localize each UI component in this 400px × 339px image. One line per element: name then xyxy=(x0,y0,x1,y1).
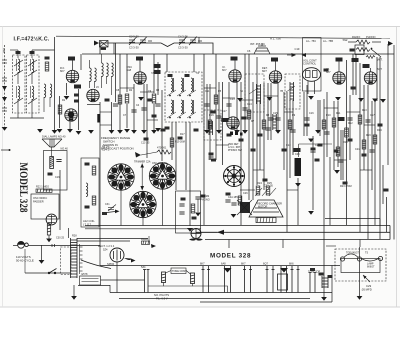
right bus verticals xyxy=(389,226,391,240)
IF transformer T1 dashed can xyxy=(13,55,26,113)
coil L4 xyxy=(32,86,34,100)
capacitor C3 xyxy=(113,104,118,106)
cluster caps near box xyxy=(195,197,200,199)
wire verticals xyxy=(54,37,56,130)
socket pair 1 xyxy=(202,266,211,293)
grounds below xyxy=(321,297,327,301)
wire chassis top xyxy=(100,265,340,267)
ballast box xyxy=(80,276,101,285)
svg-text:R19: R19 xyxy=(366,134,371,137)
wave trap cluster xyxy=(254,43,270,54)
coil L14 xyxy=(290,82,294,101)
IF can dashed C (mid) xyxy=(245,74,264,112)
tone bottom wires xyxy=(148,283,164,287)
socket pair 4 xyxy=(266,266,275,293)
gang capacitor section C xyxy=(130,191,156,217)
resistor R15 xyxy=(288,120,292,129)
capacitor C21 xyxy=(347,118,352,120)
resistor R17 xyxy=(170,138,174,147)
page scan edges xyxy=(0,26,400,28)
svg-text:C30 25: C30 25 xyxy=(56,237,65,240)
coil L4a xyxy=(44,84,46,98)
coil L5d xyxy=(107,63,109,77)
wires from gang sections to bus xyxy=(120,191,122,226)
resistor R13 xyxy=(191,204,195,213)
coil L15 with core xyxy=(209,121,213,135)
pins under tube V10 xyxy=(230,132,233,136)
resistor horizontal above box xyxy=(36,189,52,192)
svg-text:PHONO SW: PHONO SW xyxy=(228,149,243,152)
svg-text:C3 3-30: C3 3-30 xyxy=(129,46,139,50)
svg-text:R11: R11 xyxy=(336,112,341,115)
trimmer capacitor cluster A xyxy=(129,37,152,46)
svg-text:C4A 185: C4A 185 xyxy=(228,196,238,199)
svg-text:SW.: SW. xyxy=(343,38,349,42)
svg-text:C12: C12 xyxy=(286,144,291,147)
svg-text:C14: C14 xyxy=(247,103,252,106)
ground symbols row xyxy=(37,129,43,133)
resistor cluster above trapezoid xyxy=(256,186,260,195)
svg-text:6Q7: 6Q7 xyxy=(263,262,268,266)
trimmer capacitor cluster B xyxy=(179,37,202,46)
resistor R1 xyxy=(118,95,122,104)
svg-text:R13: R13 xyxy=(362,109,367,112)
svg-text:C17: C17 xyxy=(222,110,227,113)
svg-text:C16: C16 xyxy=(55,176,60,179)
svg-text:R15: R15 xyxy=(343,141,348,144)
resistor R19 xyxy=(362,140,366,149)
svg-text:6R7: 6R7 xyxy=(262,69,267,73)
resistor R30 left of bus xyxy=(47,224,50,235)
ground G xyxy=(41,245,43,260)
tiny labels above sockets xyxy=(141,262,294,270)
resistor R12 xyxy=(92,166,96,175)
svg-text:6K7: 6K7 xyxy=(200,262,205,266)
power switch xyxy=(48,272,50,274)
svg-text:7A: 7A xyxy=(196,72,199,75)
transformer B+ wires xyxy=(77,238,148,240)
tone control posts xyxy=(162,272,195,284)
svg-text:OSC 600KC: OSC 600KC xyxy=(33,196,47,200)
resistor R9 xyxy=(358,115,362,124)
tube V2 xyxy=(87,89,99,101)
svg-text:NO.40: NO.40 xyxy=(61,148,69,151)
wire filament 2 xyxy=(119,298,310,300)
capacitor C16 xyxy=(141,108,146,110)
coil L5c xyxy=(102,63,104,77)
coil L10 xyxy=(181,100,183,114)
svg-text:C4 3-30: C4 3-30 xyxy=(178,35,188,39)
svg-text:I.F.=472½K.C.: I.F.=472½K.C. xyxy=(14,36,50,43)
svg-text:R28: R28 xyxy=(72,235,77,238)
IF can dashed D (mid) xyxy=(285,74,300,109)
svg-text:R22 1 MEG: R22 1 MEG xyxy=(36,186,49,189)
svg-text:E578: E578 xyxy=(82,273,88,276)
resistor R4 xyxy=(214,95,218,104)
resistor ladder below V5 xyxy=(273,114,277,130)
svg-text:MODEL 328: MODEL 328 xyxy=(210,253,251,260)
resistor R14 xyxy=(238,196,242,205)
svg-text:C2 3-30: C2 3-30 xyxy=(129,35,139,39)
bus B+ xyxy=(85,225,390,227)
svg-text:R24: R24 xyxy=(257,181,262,185)
plug pin circles on inner box xyxy=(340,257,344,261)
svg-text:470 561: 470 561 xyxy=(157,146,167,150)
capacitor C4 xyxy=(131,110,136,112)
svg-text:PHONO: PHONO xyxy=(366,35,376,39)
resistor R21 dark xyxy=(50,157,54,169)
socket pair 6 xyxy=(291,266,300,293)
svg-text:C16: C16 xyxy=(309,112,314,115)
svg-text:PHONO: PHONO xyxy=(201,199,210,202)
coil L2 xyxy=(32,59,34,73)
capacitor C20 xyxy=(265,128,270,130)
transformer shield dashed xyxy=(61,247,72,275)
resistor R5 xyxy=(247,110,251,119)
socket pair 2 xyxy=(225,266,231,293)
svg-text:6K6GT: 6K6GT xyxy=(367,266,375,269)
svg-text:C21: C21 xyxy=(355,148,360,151)
zigzag resistor horizontal xyxy=(157,150,171,154)
ground under transformer xyxy=(73,285,75,296)
svg-text:TOP 6K6GT: TOP 6K6GT xyxy=(346,252,360,255)
svg-text:7A: 7A xyxy=(240,90,243,93)
svg-text:R23 470M: R23 470M xyxy=(340,185,352,188)
svg-text:TONE TOP: TONE TOP xyxy=(308,271,320,274)
power transformer xyxy=(71,238,78,278)
resistor R10 xyxy=(373,135,377,144)
frequency range note xyxy=(101,136,134,151)
arc wires between pins xyxy=(344,254,358,257)
svg-text:6A8: 6A8 xyxy=(221,262,226,266)
inner box xyxy=(341,259,380,273)
resistor R6 xyxy=(262,120,266,129)
C19 opposing arrows xyxy=(292,53,297,57)
mains voltage note xyxy=(16,255,34,263)
trimmer cluster near pointer xyxy=(108,205,116,212)
coil L13 xyxy=(257,84,261,104)
tube V1 6K7 xyxy=(66,70,78,82)
svg-text:ANT: ANT xyxy=(2,48,6,54)
svg-text:A.L.756: A.L.756 xyxy=(270,37,281,41)
output transformer trapezoid xyxy=(249,200,283,217)
resistor R7 xyxy=(322,120,326,129)
socket pair 3 xyxy=(243,266,252,293)
svg-text:7A: 7A xyxy=(151,72,154,75)
small labels scattered xyxy=(154,64,161,68)
tuning eye shield box xyxy=(44,151,68,191)
resistor R8 xyxy=(345,128,349,137)
capacitor C9 xyxy=(304,118,309,120)
svg-text:C5 3-30: C5 3-30 xyxy=(178,46,188,50)
svg-text:6K7: 6K7 xyxy=(60,69,65,73)
tall shield box xyxy=(81,158,99,227)
svg-text:R16: R16 xyxy=(209,114,214,117)
tube V3 6A8 xyxy=(134,72,146,84)
bus heater xyxy=(205,239,390,241)
svg-text:6K7: 6K7 xyxy=(222,68,227,72)
svg-text:C11: C11 xyxy=(205,90,210,93)
gang capacitor section B xyxy=(149,163,175,189)
svg-text:R14: R14 xyxy=(377,129,382,132)
horn symbol xyxy=(124,258,136,263)
svg-text:5Z4: 5Z4 xyxy=(103,248,108,252)
svg-text:5Z4: 5Z4 xyxy=(141,265,146,269)
svg-text:C25: C25 xyxy=(295,153,300,156)
capacitor C6 xyxy=(226,104,231,106)
black label near vert xyxy=(319,273,324,276)
svg-text:NO. PILOTS: NO. PILOTS xyxy=(154,293,169,297)
capacitor C22 xyxy=(369,150,374,152)
dial drum circle xyxy=(224,166,245,187)
speaker assembly dashed box xyxy=(335,249,386,281)
coil L9 xyxy=(171,100,173,114)
dial pointer arrow xyxy=(102,212,107,215)
svg-text:A12 COIL: A12 COIL xyxy=(83,219,95,223)
coil L8 xyxy=(191,78,193,92)
funnel dial light xyxy=(42,139,62,147)
svg-text:TS: TS xyxy=(365,252,368,255)
arrow at switch xyxy=(135,152,141,158)
tube V10 xyxy=(227,117,239,129)
capacitor C18 xyxy=(242,108,247,110)
svg-text:7B: 7B xyxy=(280,90,283,93)
magic eye tube xyxy=(46,214,57,225)
top right phono switch xyxy=(348,40,381,57)
resistor R18 xyxy=(58,105,62,114)
wire staircase right xyxy=(325,218,380,220)
capacitor C12 xyxy=(290,130,295,132)
svg-text:C19: C19 xyxy=(295,47,300,51)
IF transformer T2 dashed can xyxy=(27,55,40,113)
field resistor top right of rect tube xyxy=(142,241,150,244)
capacitor C14 xyxy=(179,212,184,214)
capacitor C5 xyxy=(204,104,209,106)
capacitor C24 xyxy=(310,150,315,152)
antenna arrow xyxy=(94,41,99,46)
wire bus 1b xyxy=(85,228,201,230)
capacitor C16a xyxy=(56,160,61,162)
socket pair 5 with pilot box xyxy=(278,266,288,293)
coupling transformer dark blob xyxy=(240,202,250,213)
coil L4b xyxy=(50,84,52,98)
socket pair 7 xyxy=(309,273,317,293)
wire second top bus xyxy=(56,36,390,38)
svg-text:6K6: 6K6 xyxy=(289,262,294,266)
capacitor C11 xyxy=(365,120,370,122)
phono input stub xyxy=(1,149,9,151)
tube V6 volume control dual xyxy=(303,68,321,82)
capacitor C23 xyxy=(338,160,343,162)
tube V9 second IF xyxy=(65,109,77,121)
filter box xyxy=(176,191,201,233)
svg-text:6K7: 6K7 xyxy=(241,262,246,266)
svg-text:OSC 1650 KC: OSC 1650 KC xyxy=(152,162,167,165)
wire into box xyxy=(326,245,336,247)
wire connector stubs xyxy=(100,88,375,190)
bus AVC with arrow xyxy=(196,231,390,233)
svg-text:CONTROL: CONTROL xyxy=(303,62,317,66)
arrow and label below xyxy=(363,275,370,282)
coil L7 xyxy=(181,78,183,92)
wire filament 3 xyxy=(200,301,332,303)
label near phono jack column xyxy=(324,69,329,72)
tube V5 6A8 xyxy=(269,71,281,83)
capacitor C13 xyxy=(179,204,184,206)
wire filament 1 xyxy=(110,292,332,294)
capacitor C15 xyxy=(225,200,230,202)
hatched label under trapezoid xyxy=(256,218,276,223)
capacitor C10 xyxy=(324,132,329,134)
capacitor C17 xyxy=(216,116,221,118)
svg-text:A.L. 75C: A.L. 75C xyxy=(306,39,316,43)
trimmer arrows in cans xyxy=(14,60,37,104)
phono lamp circle xyxy=(191,229,201,239)
coil L3 xyxy=(18,86,20,100)
svg-text:RADIO: RADIO xyxy=(352,35,360,39)
tube V4 6K7 xyxy=(229,70,241,82)
capacitor C7 xyxy=(268,118,273,120)
svg-text:TRIMMER C2A: TRIMMER C2A xyxy=(134,161,151,164)
svg-text:INT. 456 KC: INT. 456 KC xyxy=(250,42,265,46)
field coil hatched xyxy=(322,276,328,288)
svg-text:FIELD: FIELD xyxy=(141,238,148,241)
AC plug jack xyxy=(18,241,25,248)
svg-text:C13: C13 xyxy=(230,98,235,101)
svg-text:PADDER: PADDER xyxy=(33,200,44,204)
antenna coil small box xyxy=(100,41,109,48)
resistor R20 xyxy=(332,118,336,127)
resistor R0 xyxy=(45,62,49,71)
wire to switch xyxy=(25,272,70,274)
tone label box xyxy=(171,268,186,274)
IF can dashed E xyxy=(204,110,221,140)
svg-text:R25: R25 xyxy=(267,181,272,185)
oscillator coil assembly dashed box xyxy=(165,72,202,122)
coil L5a xyxy=(90,68,92,82)
resistor R16 xyxy=(208,120,212,129)
coil L5e xyxy=(112,63,114,77)
svg-text:TONE CONT: TONE CONT xyxy=(172,270,187,273)
oscillator box xyxy=(31,194,59,219)
svg-text:C13 .05: C13 .05 xyxy=(141,142,150,145)
svg-text:FIL. 6.3 V: FIL. 6.3 V xyxy=(156,297,168,301)
svg-text:R19 30M: R19 30M xyxy=(175,141,185,144)
svg-text:C26: C26 xyxy=(243,192,248,195)
capacitor C8 xyxy=(275,118,280,120)
cluster top right of gang xyxy=(209,153,214,156)
coil L11 xyxy=(191,100,193,114)
coil L12 xyxy=(86,183,88,197)
svg-text:A.L. 75B: A.L. 75B xyxy=(323,39,333,43)
svg-text:R10: R10 xyxy=(326,114,331,117)
svg-text:.05 MFD: .05 MFD xyxy=(361,288,372,292)
svg-text:C24: C24 xyxy=(315,144,320,147)
svg-text:C15: C15 xyxy=(273,112,278,115)
resistor R2 xyxy=(125,94,129,103)
gang capacitor section A xyxy=(108,164,134,190)
wires from cans xyxy=(10,50,55,118)
wire third top bus xyxy=(82,53,394,55)
resistor R3 xyxy=(152,94,156,103)
wire AC line xyxy=(28,245,100,247)
svg-text:C31: C31 xyxy=(105,203,110,206)
top right shield box xyxy=(303,38,322,92)
socket pair 0 xyxy=(143,270,150,293)
svg-text:RECT. 1 2 3 4: RECT. 1 2 3 4 xyxy=(98,244,115,248)
coil L5b xyxy=(95,68,97,82)
tube V7 6K7 xyxy=(333,72,345,84)
tiny text noise labels xyxy=(62,72,382,156)
resistor R11 xyxy=(336,147,340,156)
coil L1 xyxy=(18,59,20,73)
resistor R12b xyxy=(92,196,96,205)
black electrolytic xyxy=(295,158,302,176)
svg-text:MOTOR: MOTOR xyxy=(258,206,267,209)
coil L6 xyxy=(171,78,173,92)
phase splitter box top xyxy=(299,143,332,145)
rectifier tube bottom xyxy=(110,248,124,262)
svg-text:C6: C6 xyxy=(247,49,251,53)
tube V8 6Q7 xyxy=(364,72,376,84)
svg-text:R17: R17 xyxy=(180,133,185,136)
wire top antenna bus xyxy=(99,43,213,54)
svg-text:C14 .1: C14 .1 xyxy=(102,149,110,152)
svg-text:MODEL 328: MODEL 328 xyxy=(17,163,31,213)
svg-text:DIAL LAMPS NO.40: DIAL LAMPS NO.40 xyxy=(42,135,66,139)
svg-text:R12: R12 xyxy=(348,122,353,125)
svg-text:C17: C17 xyxy=(370,114,375,117)
